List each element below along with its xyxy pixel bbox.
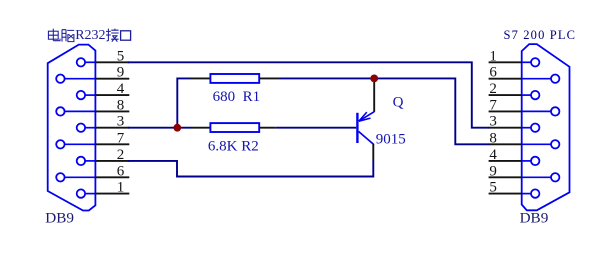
pin 3 of J2 xyxy=(489,114,540,132)
svg-text:R232: R232 xyxy=(75,28,105,43)
resistor R2 xyxy=(192,123,276,132)
junction node at emitter/top wire (red dot) xyxy=(370,75,378,83)
pin 8 of J2 xyxy=(489,130,560,148)
pin 7 of J2 xyxy=(489,97,560,115)
connector J2 right DB9 shell xyxy=(522,44,570,210)
svg-text:680 R1: 680 R1 xyxy=(213,89,261,105)
pin 1 of J1 xyxy=(77,180,130,198)
pin 2 of J2 xyxy=(489,81,540,99)
title 电脑R232接口 (left connector title) xyxy=(48,28,130,43)
svg-text:5: 5 xyxy=(489,180,497,196)
wire net collector: pin2(J1) down and across to transistor collector xyxy=(128,161,373,177)
base bar xyxy=(356,113,358,143)
脑 xyxy=(62,30,74,42)
svg-text:4: 4 xyxy=(117,81,125,97)
svg-text:DB9: DB9 xyxy=(520,210,549,227)
pin 8 of J1 xyxy=(56,97,129,115)
svg-text:6: 6 xyxy=(117,163,125,179)
wire net R1 branch (line3 junction up and across to pin8(J2)) xyxy=(177,78,190,127)
svg-text:S7 200 PLC: S7 200 PLC xyxy=(504,28,577,42)
pin 2 of J1 xyxy=(77,147,130,165)
svg-text:2: 2 xyxy=(117,147,125,163)
pin 6 of J2 xyxy=(489,65,560,83)
电 xyxy=(48,29,60,41)
emitter lead (vertical black) xyxy=(373,79,375,112)
pin 1 of J2 xyxy=(489,48,540,66)
pin 4 of J2 xyxy=(489,147,540,165)
svg-text:4: 4 xyxy=(489,147,497,163)
svg-text:Q: Q xyxy=(393,95,404,111)
pin 6 of J1 xyxy=(56,163,129,181)
svg-text:5: 5 xyxy=(117,48,125,64)
svg-text:1: 1 xyxy=(117,180,125,196)
connector J1 left DB9 shell xyxy=(48,45,96,211)
pin 5 of J1 xyxy=(77,48,130,66)
wire R2 right to transistor base xyxy=(276,127,356,129)
junction node on line3 (red dot) xyxy=(173,124,181,132)
transistor Q1 9015 (PNP) xyxy=(356,79,374,160)
wire R1 right to emitter junction and down to pin8(J2) xyxy=(280,78,489,144)
collector diagonal xyxy=(359,131,374,144)
pin 7 of J1 xyxy=(56,130,129,148)
wire net line3: pin3(J1) to R2 xyxy=(128,127,192,129)
resistor R1 xyxy=(190,74,280,83)
svg-text:8: 8 xyxy=(489,130,497,146)
svg-text:DB9: DB9 xyxy=(45,210,74,227)
pin 9 of J1 xyxy=(56,65,129,83)
svg-text:6.8K R2: 6.8K R2 xyxy=(208,138,259,154)
svg-text:7: 7 xyxy=(489,97,497,113)
svg-text:2: 2 xyxy=(489,81,497,97)
svg-text:7: 7 xyxy=(117,130,125,146)
svg-text:9: 9 xyxy=(117,65,125,81)
接 xyxy=(106,29,119,42)
svg-text:1: 1 xyxy=(489,48,497,64)
wire net pin5(J1) to pin3(J2) xyxy=(128,62,489,127)
pin 4 of J1 xyxy=(77,81,130,99)
emitter diagonal with arrow (PNP) xyxy=(359,112,375,122)
pin 3 of J1 xyxy=(77,114,130,132)
svg-text:8: 8 xyxy=(117,97,125,113)
pin 5 of J2 xyxy=(489,180,540,198)
collector lead (vertical black) xyxy=(372,144,374,161)
pin 9 of J2 xyxy=(489,163,560,181)
svg-text:9015: 9015 xyxy=(376,131,406,147)
svg-text:3: 3 xyxy=(489,114,497,130)
svg-text:3: 3 xyxy=(117,114,125,130)
口 xyxy=(121,31,131,40)
svg-text:6: 6 xyxy=(489,65,497,81)
svg-text:9: 9 xyxy=(489,163,497,179)
